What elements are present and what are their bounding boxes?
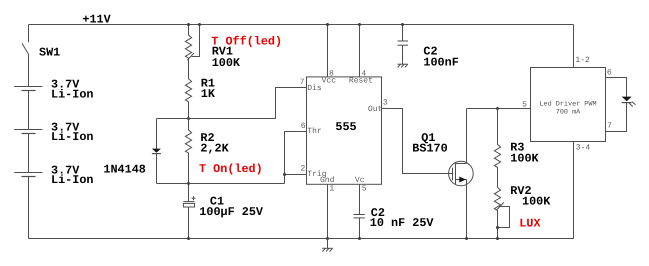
battery B1 cell xyxy=(14,86,42,88)
wire drain riser xyxy=(466,109,468,164)
svg-text:2: 2 xyxy=(301,165,306,174)
diode D1 1N4148 xyxy=(156,119,158,149)
svg-text:1K: 1K xyxy=(201,87,216,101)
junction dot C2 rail xyxy=(401,23,404,26)
capacitor C2 10nF on pin5 xyxy=(359,184,361,214)
svg-text:4: 4 xyxy=(361,70,366,79)
svg-text:555: 555 xyxy=(335,120,356,134)
wire B1 to B2 xyxy=(28,91,30,130)
svg-text:1N4148: 1N4148 xyxy=(103,163,145,177)
wire rail to driver pins 1-2 xyxy=(573,25,575,68)
wire left riser to switch xyxy=(28,25,30,43)
svg-text:Li-Ion: Li-Ion xyxy=(51,130,93,144)
svg-text:1-2: 1-2 xyxy=(575,56,590,65)
op-amp U2 Led Driver PWM box xyxy=(531,68,606,142)
battery B2 cell xyxy=(14,129,42,131)
svg-text:Li-Ion: Li-Ion xyxy=(51,173,93,187)
svg-text:5: 5 xyxy=(522,100,527,109)
junction dot Trig xyxy=(283,173,286,176)
capacitor C2 100nF top xyxy=(402,25,404,42)
svg-text:100K: 100K xyxy=(510,152,539,166)
svg-text:T On(led): T On(led) xyxy=(199,162,263,176)
wire 555 Vcc pin8 riser xyxy=(327,25,329,77)
battery B3 cell xyxy=(14,172,42,174)
wire bottom node row xyxy=(157,183,285,185)
svg-text:700 mA: 700 mA xyxy=(556,109,581,117)
svg-text:3: 3 xyxy=(383,99,388,108)
RV1 wiper arrow xyxy=(187,53,194,60)
junction dot C1 gnd xyxy=(187,237,190,240)
svg-text:Out: Out xyxy=(368,105,382,114)
svg-text:Dis: Dis xyxy=(307,84,322,93)
wire drain to driver pin5 xyxy=(467,108,531,110)
junction dot R3 top xyxy=(496,107,499,110)
wire junction row to Dis riser xyxy=(157,88,307,119)
svg-text:+11V: +11V xyxy=(82,12,111,26)
junction dot pin4 rail xyxy=(358,23,361,26)
LED D2 xyxy=(622,97,632,102)
wire LED to driver pin7 xyxy=(606,103,627,132)
resistor R1 xyxy=(185,58,191,119)
wire RV1 wiper riser xyxy=(192,25,200,57)
ground symbol C2 xyxy=(397,63,407,65)
junction dot wiper xyxy=(496,226,499,229)
node junction R1/R2 xyxy=(187,117,190,120)
svg-text:6: 6 xyxy=(301,122,306,131)
svg-text:Li-Ion: Li-Ion xyxy=(51,87,93,101)
junction dot RV2 gnd xyxy=(496,237,499,240)
junction dot source gnd xyxy=(465,237,468,240)
svg-text:7: 7 xyxy=(607,122,612,131)
junction dot RV1 top xyxy=(187,23,190,26)
wire B3 to ground rail xyxy=(28,177,30,239)
wire driver pins 3-4 drop xyxy=(573,142,575,239)
junction dot pin1 gnd rail xyxy=(326,237,329,240)
svg-text:Led Driver PWM: Led Driver PWM xyxy=(539,100,596,108)
wire driver pin6 to LED xyxy=(606,78,627,97)
svg-text:2,2K: 2,2K xyxy=(200,141,229,155)
svg-text:8: 8 xyxy=(329,70,334,79)
wire 555 Gnd pin1 drop xyxy=(327,184,329,238)
node +11V top rail xyxy=(29,24,574,26)
junction dot C2 gnd xyxy=(358,237,361,240)
resistor R3 xyxy=(494,109,500,188)
svg-text:LUX: LUX xyxy=(519,216,541,230)
svg-text:100nF: 100nF xyxy=(423,56,458,70)
potentiometer RV2 xyxy=(494,187,500,238)
junction dot RV1 wiper top xyxy=(198,23,201,26)
svg-text:3-4: 3-4 xyxy=(576,144,591,153)
capacitor C1 xyxy=(188,184,190,202)
svg-text:7: 7 xyxy=(300,78,305,87)
svg-text:1: 1 xyxy=(329,184,334,193)
wire Thr riser xyxy=(285,132,307,184)
wire source drop xyxy=(466,180,468,239)
node GND bottom rail xyxy=(29,238,574,240)
wire 555 Reset pin4 riser xyxy=(359,25,361,77)
wire switch to battery B1 xyxy=(28,55,30,87)
LED light arrows xyxy=(629,103,633,106)
svg-text:SW1: SW1 xyxy=(39,45,60,59)
junction dot R2/C1 xyxy=(187,182,190,185)
wire Out to gate xyxy=(382,109,453,174)
svg-text:100µF 25V: 100µF 25V xyxy=(199,205,264,219)
ground symbol below rail xyxy=(327,239,329,249)
potentiometer RV1 xyxy=(185,25,191,59)
junction dot pin8 rail xyxy=(326,23,329,26)
wire B2 to B3 xyxy=(28,134,30,173)
svg-text:Thr: Thr xyxy=(307,127,322,136)
svg-text:100K: 100K xyxy=(522,195,551,209)
transistor Q1 MOSFET xyxy=(449,161,474,186)
svg-text:6: 6 xyxy=(607,68,612,77)
op-amp U1 555 box xyxy=(307,77,382,184)
resistor R2 xyxy=(185,119,191,184)
svg-text:100K: 100K xyxy=(212,56,241,70)
svg-text:5: 5 xyxy=(362,184,367,193)
svg-text:10 nF 25V: 10 nF 25V xyxy=(370,216,435,230)
RV2 wiper arrow xyxy=(497,202,504,209)
svg-text:BS170: BS170 xyxy=(412,142,447,156)
wire RV2 wiper loop xyxy=(498,207,510,228)
wire Trig stub xyxy=(285,174,307,176)
switch SW1 xyxy=(22,43,29,54)
